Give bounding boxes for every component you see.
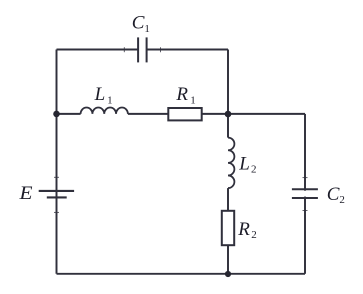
inductor L1 <box>81 108 128 114</box>
inductor L2 <box>228 138 234 188</box>
svg-text:E: E <box>18 183 33 204</box>
wire top rail right segment <box>147 49 228 51</box>
wire L1 to R1 <box>128 113 168 115</box>
wire right rail lower <box>304 197 306 274</box>
tick C2 top lead <box>303 177 308 179</box>
wire R1 to right rail <box>202 113 305 115</box>
capacitor C1 <box>138 37 147 62</box>
wire middle rail left <box>57 113 81 115</box>
svg-text:L2: L2 <box>238 153 256 175</box>
svg-text:R1: R1 <box>175 84 195 106</box>
svg-text:R2: R2 <box>237 219 256 241</box>
tick C2 bottom lead <box>303 210 308 212</box>
svg-text:C1: C1 <box>132 13 150 35</box>
wire L2 to R2 <box>227 188 229 211</box>
wire right rail upper <box>304 114 306 191</box>
battery E <box>39 191 74 198</box>
wire top rail left segment <box>57 49 139 51</box>
tick C1 right lead <box>160 47 162 52</box>
wire middle branch top <box>227 114 229 138</box>
wire R2 to bottom <box>227 245 229 274</box>
node junction left <box>53 111 60 118</box>
svg-text:L1: L1 <box>94 84 113 106</box>
tick E top lead <box>54 176 59 178</box>
resistor R2 <box>222 211 234 245</box>
tick E bottom lead <box>54 211 59 213</box>
wire bottom rail <box>57 273 306 275</box>
node junction middle <box>225 111 232 118</box>
resistor R1 <box>168 108 201 120</box>
tick C1 left lead <box>123 47 125 52</box>
svg-text:C2: C2 <box>327 184 345 206</box>
wire top-right drop <box>227 50 229 114</box>
wire left rail <box>56 50 58 274</box>
capacitor C2 <box>292 189 318 198</box>
node junction bottom <box>225 271 231 277</box>
